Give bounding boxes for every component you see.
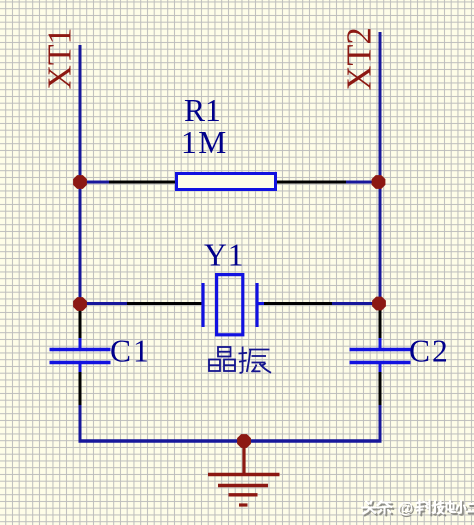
junction node at R1 right	[372, 175, 386, 189]
junction node at Y1 left	[73, 297, 87, 311]
zhen: hand radical	[242, 347, 244, 372]
wire Y1 row left stub	[80, 302, 128, 305]
capacitor C1	[50, 304, 111, 407]
svg-text:XT2: XT2	[341, 27, 379, 90]
junction node at R1 left	[73, 175, 87, 189]
junction node at ground	[237, 434, 251, 448]
svg-text:R1: R1	[184, 93, 221, 128]
wire C1 to bottom	[79, 405, 82, 441]
jing: bottom left ri box	[209, 360, 220, 372]
zhen: chen part	[249, 349, 270, 351]
label jingzhen (crystal)	[209, 347, 271, 373]
wire bottom horizontal	[79, 439, 382, 442]
wire C2 to bottom	[379, 405, 382, 441]
jing: bottom right ri box	[224, 360, 235, 372]
wire right vertical	[379, 32, 382, 304]
junction node at Y1 right	[372, 297, 386, 311]
wire R1 row left stub	[80, 181, 110, 184]
wire left vertical	[79, 45, 82, 304]
jing: top ri box	[218, 347, 231, 357]
watermark toutiao	[362, 500, 474, 519]
svg-text:C1: C1	[110, 334, 151, 369]
capacitor C2	[350, 304, 411, 407]
svg-text:1M: 1M	[181, 125, 228, 160]
svg-text:Y1: Y1	[204, 238, 245, 273]
svg-text:XT1: XT1	[42, 28, 79, 90]
wire R1 row right stub	[345, 181, 380, 184]
crystal Y1	[127, 275, 332, 335]
svg-text:C2: C2	[409, 334, 450, 369]
ground	[208, 441, 280, 505]
wire Y1 row right stub	[331, 302, 380, 305]
resistor R1	[109, 174, 346, 190]
